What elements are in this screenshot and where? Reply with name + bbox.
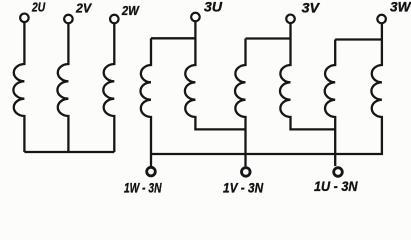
svg-text:1W - 3N: 1W - 3N <box>124 179 162 195</box>
svg-text:3U: 3U <box>204 0 223 15</box>
svg-text:2W: 2W <box>121 4 140 18</box>
svg-text:2V: 2V <box>75 1 93 15</box>
svg-text:1U - 3N: 1U - 3N <box>314 178 358 194</box>
svg-text:1V - 3N: 1V - 3N <box>223 179 264 195</box>
svg-text:3W: 3W <box>390 0 411 14</box>
svg-text:2U: 2U <box>31 1 46 15</box>
svg-text:3V: 3V <box>302 1 320 16</box>
